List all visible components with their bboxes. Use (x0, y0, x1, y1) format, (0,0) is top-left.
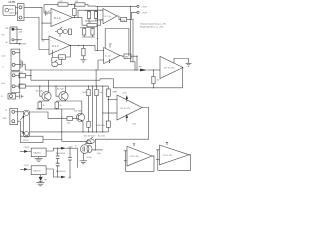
wire K4 pin2 down (18, 121, 21, 136)
svg-text:74: 74 (5, 110, 7, 112)
connector K1 pin 1 (19, 6, 22, 9)
svg-text:CA 18: CA 18 (9, 12, 15, 15)
svg-text:4n: 4n (75, 145, 77, 147)
wire R1 to R2 (68, 4, 75, 6)
wire R21 top (152, 70, 154, 77)
supply arrow head (19, 43, 21, 45)
trimmer P3 wiper (91, 137, 93, 139)
junction TR7 out (136, 56, 137, 57)
svg-text:-15V: -15V (132, 123, 137, 125)
transistor Q2 circle (59, 92, 68, 101)
wire R21 bottom (152, 84, 154, 88)
junction C out 2 (78, 45, 79, 46)
connector K3 pin (10, 95, 13, 98)
junction e1 (39, 108, 40, 109)
arrow +15V out (61, 147, 66, 150)
resistor R1 (58, 3, 68, 6)
svg-text:-15V: -15V (67, 177, 72, 179)
wire PSU box right (43, 139, 62, 141)
wire base resistor left (48, 117, 67, 119)
junction e2 (56, 108, 57, 109)
microphone MIC1 capsule circle (5, 8, 9, 12)
resistor R15 vertical (87, 89, 90, 95)
connector CL0 body (11, 49, 20, 70)
wire IC1.D out to TR7 (120, 55, 124, 58)
connector K2 pin2 (12, 39, 14, 41)
svg-text:0.1R: 0.1R (59, 1, 64, 3)
junction x96 rail (96, 69, 97, 70)
svg-text:1N4001/16: 1N4001/16 (56, 171, 67, 173)
diode D1 (40, 175, 42, 177)
junction R1R2 (71, 4, 72, 5)
junction R18 in1 (108, 99, 109, 100)
svg-text:+ KOP: + KOP (141, 12, 148, 14)
svg-text:E.b: E.b (2, 35, 5, 37)
wire TR7 out (131, 56, 137, 70)
wire R18 bottom through (107, 96, 109, 121)
junction e3 (61, 116, 62, 117)
connector K4 pin2 (12, 120, 15, 123)
transformer TR1 cap top (86, 141, 92, 144)
svg-text:NMR: NMR (113, 91, 118, 93)
svg-text:dyn: dyn (139, 66, 142, 68)
junction top rail (130, 6, 131, 7)
resistor R6 feedback horizontal (87, 24, 97, 27)
wire TR5 right from output (66, 45, 71, 57)
resistor R12 horizontal (19, 84, 26, 88)
junction P2 out (189, 154, 190, 155)
ground under D1 (36, 181, 44, 186)
svg-text:1k: 1k (43, 105, 45, 107)
wire C1 left (44, 12, 46, 14)
wire R15 drop to R20 (88, 96, 90, 122)
ground under U4 (35, 157, 43, 162)
wire P1 stub left (55, 32, 60, 37)
capacitor C6 rail (69, 148, 71, 177)
svg-text:UA79xx: UA79xx (34, 169, 42, 172)
junction base bus (39, 86, 40, 87)
resistor R5 vertical (94, 12, 97, 19)
trimmer P3 oval (87, 139, 95, 144)
ground right of U2 (186, 63, 192, 66)
wire x96 drop (95, 70, 97, 86)
trimmer P1 second gang (63, 30, 67, 34)
wire node c2 (92, 86, 94, 132)
pin stub P2 top (166, 142, 168, 145)
svg-text:1: 1 (111, 44, 112, 46)
junction c4 branch (102, 112, 103, 113)
potentiometer P4 gang1 (25, 112, 29, 116)
wire mic to connector bottom (16, 12, 18, 14)
capacitor C5 bars (56, 163, 60, 166)
resistor R9 vertical (83, 29, 86, 36)
svg-text:50 Hz: 50 Hz (87, 157, 92, 159)
connector CL0 pin1 (12, 51, 15, 54)
wire to IC1.A input1 (47, 12, 51, 14)
resistor R2 (75, 3, 85, 6)
resistor R7 small vertical (69, 29, 72, 35)
wire vertical x130.5 (131, 6, 136, 70)
wire Q1 collector up (48, 80, 50, 92)
svg-text:-15(1): -15(1) (23, 165, 29, 167)
wire Q2 collector up (65, 86, 67, 92)
wire to IC1.A input2 (42, 22, 51, 24)
connector LL0 pin2 (12, 85, 15, 88)
svg-text:CL0: CL0 (1, 56, 6, 58)
wire R8 bottom (82, 56, 84, 60)
svg-text:11: 11 (1, 96, 3, 98)
trimmer box TR5 under IC1.C (59, 55, 66, 60)
capacitor C1 input bar2 (46, 11, 48, 15)
svg-text:+15(1): +15(1) (23, 147, 29, 149)
op-amp P1 (127, 146, 152, 166)
wire rail above R9R10 (80, 28, 95, 29)
svg-text:+: + (52, 12, 54, 14)
junction output A (77, 17, 78, 18)
capacitor C2 bar2 (22, 61, 24, 67)
trimmer P2 (52, 62, 58, 67)
capacitor C2 bar1 (20, 60, 22, 69)
junction bus1 (61, 131, 62, 132)
wire R20 bottom (88, 127, 90, 132)
junction TR1 right (95, 149, 96, 150)
svg-text:+: + (50, 39, 52, 41)
wire P4 bottom to bus (29, 131, 31, 133)
wire mains vertical x77.5 (77, 148, 79, 168)
potentiometer P4 wiper arrow1 (20, 117, 23, 120)
wire mic to connector top (16, 7, 18, 9)
microphone MIC1 body (3, 6, 16, 16)
wire R3 top (73, 5, 75, 9)
svg-text:100k: 100k (82, 92, 86, 94)
transistor Q1 base bar (44, 94, 46, 99)
trimmer P1 wiper (60, 27, 63, 29)
transistor Q1 collector (45, 92, 49, 95)
rail feedback step (100, 79, 153, 88)
svg-text:1 H TL 071: 1 H TL 071 (120, 108, 131, 110)
wire U4 out (46, 148, 61, 151)
svg-text:1 H TL 07x: 1 H TL 07x (130, 156, 140, 158)
transistor Q3 circle (76, 113, 84, 121)
svg-text:+ KOP: + KOP (141, 6, 148, 8)
wire vertical x133 (132, 19, 134, 61)
svg-text:14k: 14k (42, 40, 45, 42)
wire IC1.A output (73, 17, 83, 19)
wire to U3 in1 (108, 99, 117, 101)
wire K1 pin1 to node (24, 7, 49, 39)
resistor R18 vertical x108.3 (106, 89, 110, 96)
trimmer P2 wiper (55, 60, 57, 62)
junction psu2 (57, 176, 58, 177)
junction bus5 (96, 131, 97, 132)
transistor Q3 base bar (77, 115, 79, 120)
wire CL0 cap (15, 63, 21, 65)
box PSU block (20, 136, 43, 142)
connector LL0 pin1 (12, 74, 15, 77)
transformer TR1 winding2 (87, 146, 92, 153)
wire node c4 (102, 86, 104, 132)
trimmer P1 (57, 29, 62, 34)
connector CL0 pin2 (12, 63, 15, 66)
junction C out 3 (83, 45, 84, 46)
wire IC1.B out to TR6 (117, 16, 121, 19)
junction r4 (102, 86, 103, 87)
rail mid y80 (31, 79, 100, 80)
transistor Q1 circle (42, 92, 51, 101)
transistor Q2 base bar (61, 94, 63, 99)
wire R22 bottom (107, 127, 109, 132)
wire feedback bottom (153, 68, 182, 88)
svg-text:9Hz: 9Hz (44, 179, 47, 181)
svg-text:240k W 9k: 240k W 9k (96, 125, 105, 127)
supply arrow U3 bottom (126, 116, 128, 122)
op-amp IC1.C (49, 36, 70, 55)
resistor R4 vertical (87, 12, 90, 19)
svg-text:1R 50: 1R 50 (23, 140, 29, 142)
svg-text:1 H TL 071: 1 H TL 071 (164, 68, 175, 70)
svg-text:BC 546: BC 546 (75, 111, 83, 113)
connector K3 small body (8, 94, 16, 100)
wire K1 pin2 to node (24, 18, 49, 50)
junction C out 1 (70, 45, 71, 46)
wire R12 rail (26, 85, 67, 87)
wire arrow to U5 (29, 168, 32, 170)
svg-text:4b: 4b (6, 42, 8, 44)
svg-text:IC 1.C: IC 1.C (52, 45, 59, 48)
wire R18 top (107, 86, 109, 89)
potentiometer P4 wiper arrow2 (20, 131, 23, 133)
capacitor C4 rail (57, 148, 59, 177)
pin stub U2 top to ground (174, 59, 189, 64)
svg-text:4k7: 4k7 (156, 80, 159, 82)
connector LL0 body (11, 72, 20, 93)
wire R8 top (82, 45, 84, 48)
wire TR1 right (92, 149, 103, 151)
wire q2e to q3c (66, 101, 82, 114)
wire R16 drop to bus (96, 96, 98, 132)
junction bus6 (102, 131, 103, 132)
transistor Q2 collector (62, 92, 66, 95)
connector K1 body (18, 4, 25, 21)
ground under R8 (80, 60, 86, 63)
wire R6 to IC1.B input2 (97, 20, 103, 25)
rail y86.1 (66, 85, 109, 87)
arrow -15V out (61, 176, 66, 179)
wire K2 pin1 (14, 28, 22, 30)
wire x30.9 drop (30, 70, 32, 80)
rail mid y70 (25, 64, 139, 70)
transformer TR1 winding1 (80, 145, 89, 154)
wire R11 to rail corner (26, 75, 31, 77)
bus y131.9 (30, 131, 109, 133)
wire cap stub (23, 63, 26, 65)
transformer TR1 core (83, 147, 85, 152)
wire CL0 pin1 stub (15, 52, 20, 54)
wire IC1.B in1 (97, 9, 103, 11)
resistor R11 horizontal (19, 74, 26, 78)
junction R21 bottom (153, 87, 154, 88)
potentiometer P4 gang2 (25, 132, 29, 136)
wire rail above R4R5 (85, 11, 98, 12)
op-amp U3 (117, 95, 142, 120)
arrow head U5 (24, 168, 29, 171)
svg-text:+15V: +15V (22, 44, 28, 46)
svg-text:4MM: 4MM (20, 84, 25, 86)
rail top y6.3 (96, 5, 137, 7)
svg-text:14k: 14k (67, 122, 70, 124)
svg-text:BC 1/25: BC 1/25 (98, 135, 105, 137)
svg-text:44k 1/5 W 1k: 44k 1/5 W 1k (84, 135, 95, 137)
supply arrow +15V mid-left (16, 43, 20, 45)
wire base resistor right (73, 117, 79, 119)
connector K2 pin1 filled (12, 28, 14, 30)
wire P2 up (51, 58, 53, 63)
junction bus4 (92, 131, 93, 132)
svg-text:TRS: TRS (59, 57, 64, 59)
svg-text:BC 546: BC 546 (57, 88, 65, 90)
svg-text:-: - (52, 22, 53, 24)
feedback loop IC1.D top (105, 29, 129, 57)
wire K3 to cap (16, 95, 19, 97)
op-amp IC1.D (104, 48, 120, 64)
wire top rail R1R2 (44, 4, 58, 6)
P1 feedback loop (126, 151, 154, 172)
svg-text:+15V: +15V (122, 93, 127, 95)
wire K4 pin1 to pot (15, 111, 24, 113)
junction bus3 (88, 131, 89, 132)
junction x133 (132, 19, 133, 20)
wire output to feedback resistor (82, 18, 87, 26)
wire Q2 base drop (56, 86, 59, 96)
junction bus2 (82, 131, 83, 132)
wire IC1.C in2 feedback drop (53, 50, 59, 58)
op-amp IC1.B (103, 9, 117, 24)
box TR6 (121, 17, 127, 21)
transistor Q3 emitter arrow (81, 120, 83, 122)
wire P3 left (62, 140, 87, 142)
wire U3 out (95, 108, 148, 150)
svg-text:1 Vb: 1 Vb (97, 153, 101, 155)
pin1 stub IC1.D (109, 43, 111, 48)
svg-text:10k: 10k (99, 92, 102, 94)
transistor Q3 collector lead (78, 114, 82, 116)
svg-text:IC 1.B: IC 1.B (105, 16, 112, 18)
node vertical feed left of IC1.A (43, 5, 45, 14)
wire IC1.B in2 (97, 19, 103, 21)
capacitor C6 bars (68, 157, 72, 160)
wire Q1 emitter to R13 (40, 101, 49, 102)
resistor R13 under Q1 (38, 102, 42, 109)
pin2 stub IC1.D (109, 59, 111, 63)
wire R3 bottom (73, 16, 75, 18)
wire R2 right end to rail (85, 5, 96, 7)
svg-text:1,0 PF: 1,0 PF (9, 2, 16, 4)
connector K4 body (10, 108, 18, 124)
junction on K2 pin2 wire (17, 39, 18, 40)
wire output up to IC1.B input1 (78, 10, 103, 17)
connector K4 pin1 (12, 110, 15, 113)
wire P1 in stubs (124, 151, 127, 161)
junction pin2 (109, 62, 110, 63)
transistor Q1 emitter (45, 97, 49, 100)
junction input2 (41, 23, 42, 24)
svg-text:Geräuschspannung u = 90: Geräuschspannung u = 90 (140, 22, 167, 25)
junction IC1.B feed (97, 38, 98, 39)
potentiometer P4 arrow2 head (22, 131, 24, 134)
wire rail below R4R5 (85, 19, 98, 22)
supply arrow U3 top (126, 97, 128, 103)
diode D1 triangle (39, 177, 43, 181)
resistor R19 base (67, 117, 73, 121)
arrow into U5 (20, 168, 24, 170)
wire K2 pin2 (14, 39, 22, 41)
svg-text:b: b (3, 67, 4, 69)
connector K1 pin 2 (19, 16, 22, 19)
regulator U5 body (31, 166, 46, 175)
terminal KOP2 (137, 11, 139, 13)
junction psu4 (69, 176, 70, 177)
svg-text:MCE: MCE (9, 9, 14, 11)
resistor R22 vertical (106, 121, 110, 127)
supply arrow U3 bottom head (126, 114, 128, 118)
junction rail x30.9 (30, 69, 31, 70)
junction psu3 (69, 148, 70, 149)
capacitor C3 bar1 (19, 94, 21, 99)
wire Q1 base drop (40, 86, 42, 96)
wire stubs below R9R10 (82, 35, 95, 37)
wire R15 top (88, 86, 90, 89)
svg-text:IC 1.A: IC 1.A (54, 17, 61, 20)
wire TR1 bottom (82, 153, 84, 161)
svg-text:LL0: LL0 (1, 83, 5, 85)
wire C3 stub (21, 95, 23, 97)
junction r3 (96, 86, 97, 87)
svg-text:1k: 1k (60, 105, 62, 107)
wire +15 rail continue (66, 147, 78, 149)
diode D1 bar (39, 180, 43, 182)
junction comp in (153, 69, 154, 70)
junction TR7 rail (136, 69, 137, 70)
resistor R21 vertical (152, 77, 155, 84)
supply arrow U3 top head (126, 95, 128, 99)
junction R11 rail (30, 75, 31, 76)
wire pot top to base wire (30, 112, 49, 118)
op-amp IC1.A (51, 9, 73, 27)
wire arrow to U4 (29, 150, 32, 152)
resistor R16 vertical (95, 89, 98, 95)
arrow head U4 (24, 150, 29, 153)
wire Q2 emitter to R14 (57, 101, 66, 102)
svg-text:1 H TL 07x: 1 H TL 07x (163, 155, 173, 157)
resistor R3 vertical feedback (73, 9, 76, 16)
signal arrow dyn (140, 69, 148, 72)
potentiometer P4 arrow1 head (22, 116, 24, 118)
svg-text:-15V: -15V (18, 32, 23, 34)
wire emitter rail (36, 108, 75, 110)
wire IC1.D in2 (98, 60, 104, 70)
junction U2 out (182, 67, 183, 68)
resistor R10 vertical (91, 29, 94, 36)
P2 feedback loop (158, 150, 191, 171)
svg-text:LTR: LTR (20, 72, 24, 74)
wire TR6 to terminal (127, 12, 137, 19)
junction r2 (92, 86, 93, 87)
svg-text:PSF: PSF (3, 118, 8, 120)
svg-text:IC 1.D: IC 1.D (105, 56, 112, 58)
terminal KOP1 (137, 5, 139, 7)
wire c4 branch to U3 in2 (103, 112, 117, 114)
resistor R14 under Q2 (55, 102, 59, 109)
